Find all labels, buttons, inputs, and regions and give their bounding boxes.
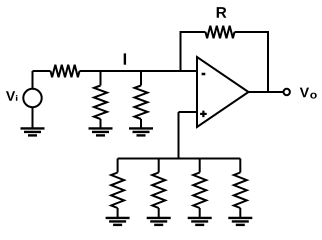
ground (under load resistor 2) [147, 218, 171, 225]
shunt resistor 2 [135, 86, 148, 120]
resistor (series input) [51, 65, 80, 78]
wire load 3 to ground [199, 208, 201, 218]
label Vi (V) [6, 91, 15, 101]
label I (node current) [124, 53, 126, 64]
wire output [249, 91, 284, 93]
voltage source Vi [23, 89, 41, 107]
load resistor 1 lead [117, 159, 119, 173]
output terminal [284, 89, 290, 95]
wire node I run to op-amp inverting input [80, 70, 198, 72]
load resistor 1 [111, 173, 124, 209]
wire Vi to series resistor [33, 70, 51, 72]
wire plus input down to lower rail [178, 112, 180, 159]
wire lower rail [118, 158, 241, 160]
load resistor 3 [193, 173, 206, 209]
ground (under shunt resistor 1) [89, 128, 113, 135]
load resistor 4 lead [239, 159, 241, 173]
ground (under load resistor 4) [228, 218, 252, 225]
label Vo (subscript o) [310, 93, 316, 99]
wire shunt 2 to ground [140, 119, 142, 128]
ground (under load resistor 1) [106, 218, 130, 225]
label Vi (subscript i) [16, 95, 17, 101]
load resistor 4 [234, 173, 247, 209]
load resistor 2 [152, 173, 165, 209]
ground (under shunt resistor 2) [129, 128, 153, 135]
wire shunt 1 to ground [100, 119, 102, 128]
shunt resistor 1 lead [100, 71, 102, 86]
resistor R (feedback) [206, 26, 235, 39]
wire op-amp noninverting input [179, 111, 198, 113]
label Vo (V) [300, 88, 309, 98]
wire feedback left leg [181, 32, 206, 71]
wire source top to main wire [32, 71, 34, 89]
wire load 1 to ground [117, 208, 119, 218]
op-amp minus sign [202, 73, 206, 76]
wire feedback right leg [235, 32, 269, 92]
shunt resistor 2 lead [140, 71, 142, 86]
wire load 2 to ground [158, 208, 160, 218]
shunt resistor 1 [94, 86, 107, 120]
load resistor 3 lead [199, 159, 201, 173]
op-amp U1 [197, 57, 249, 127]
ground (under load resistor 3) [188, 218, 212, 225]
ground (under Vi) [21, 128, 45, 135]
load resistor 2 lead [158, 159, 160, 173]
op-amp plus sign [200, 111, 207, 118]
wire load 4 to ground [239, 208, 241, 218]
label R [217, 7, 227, 18]
wire source bottom to ground [32, 107, 34, 128]
